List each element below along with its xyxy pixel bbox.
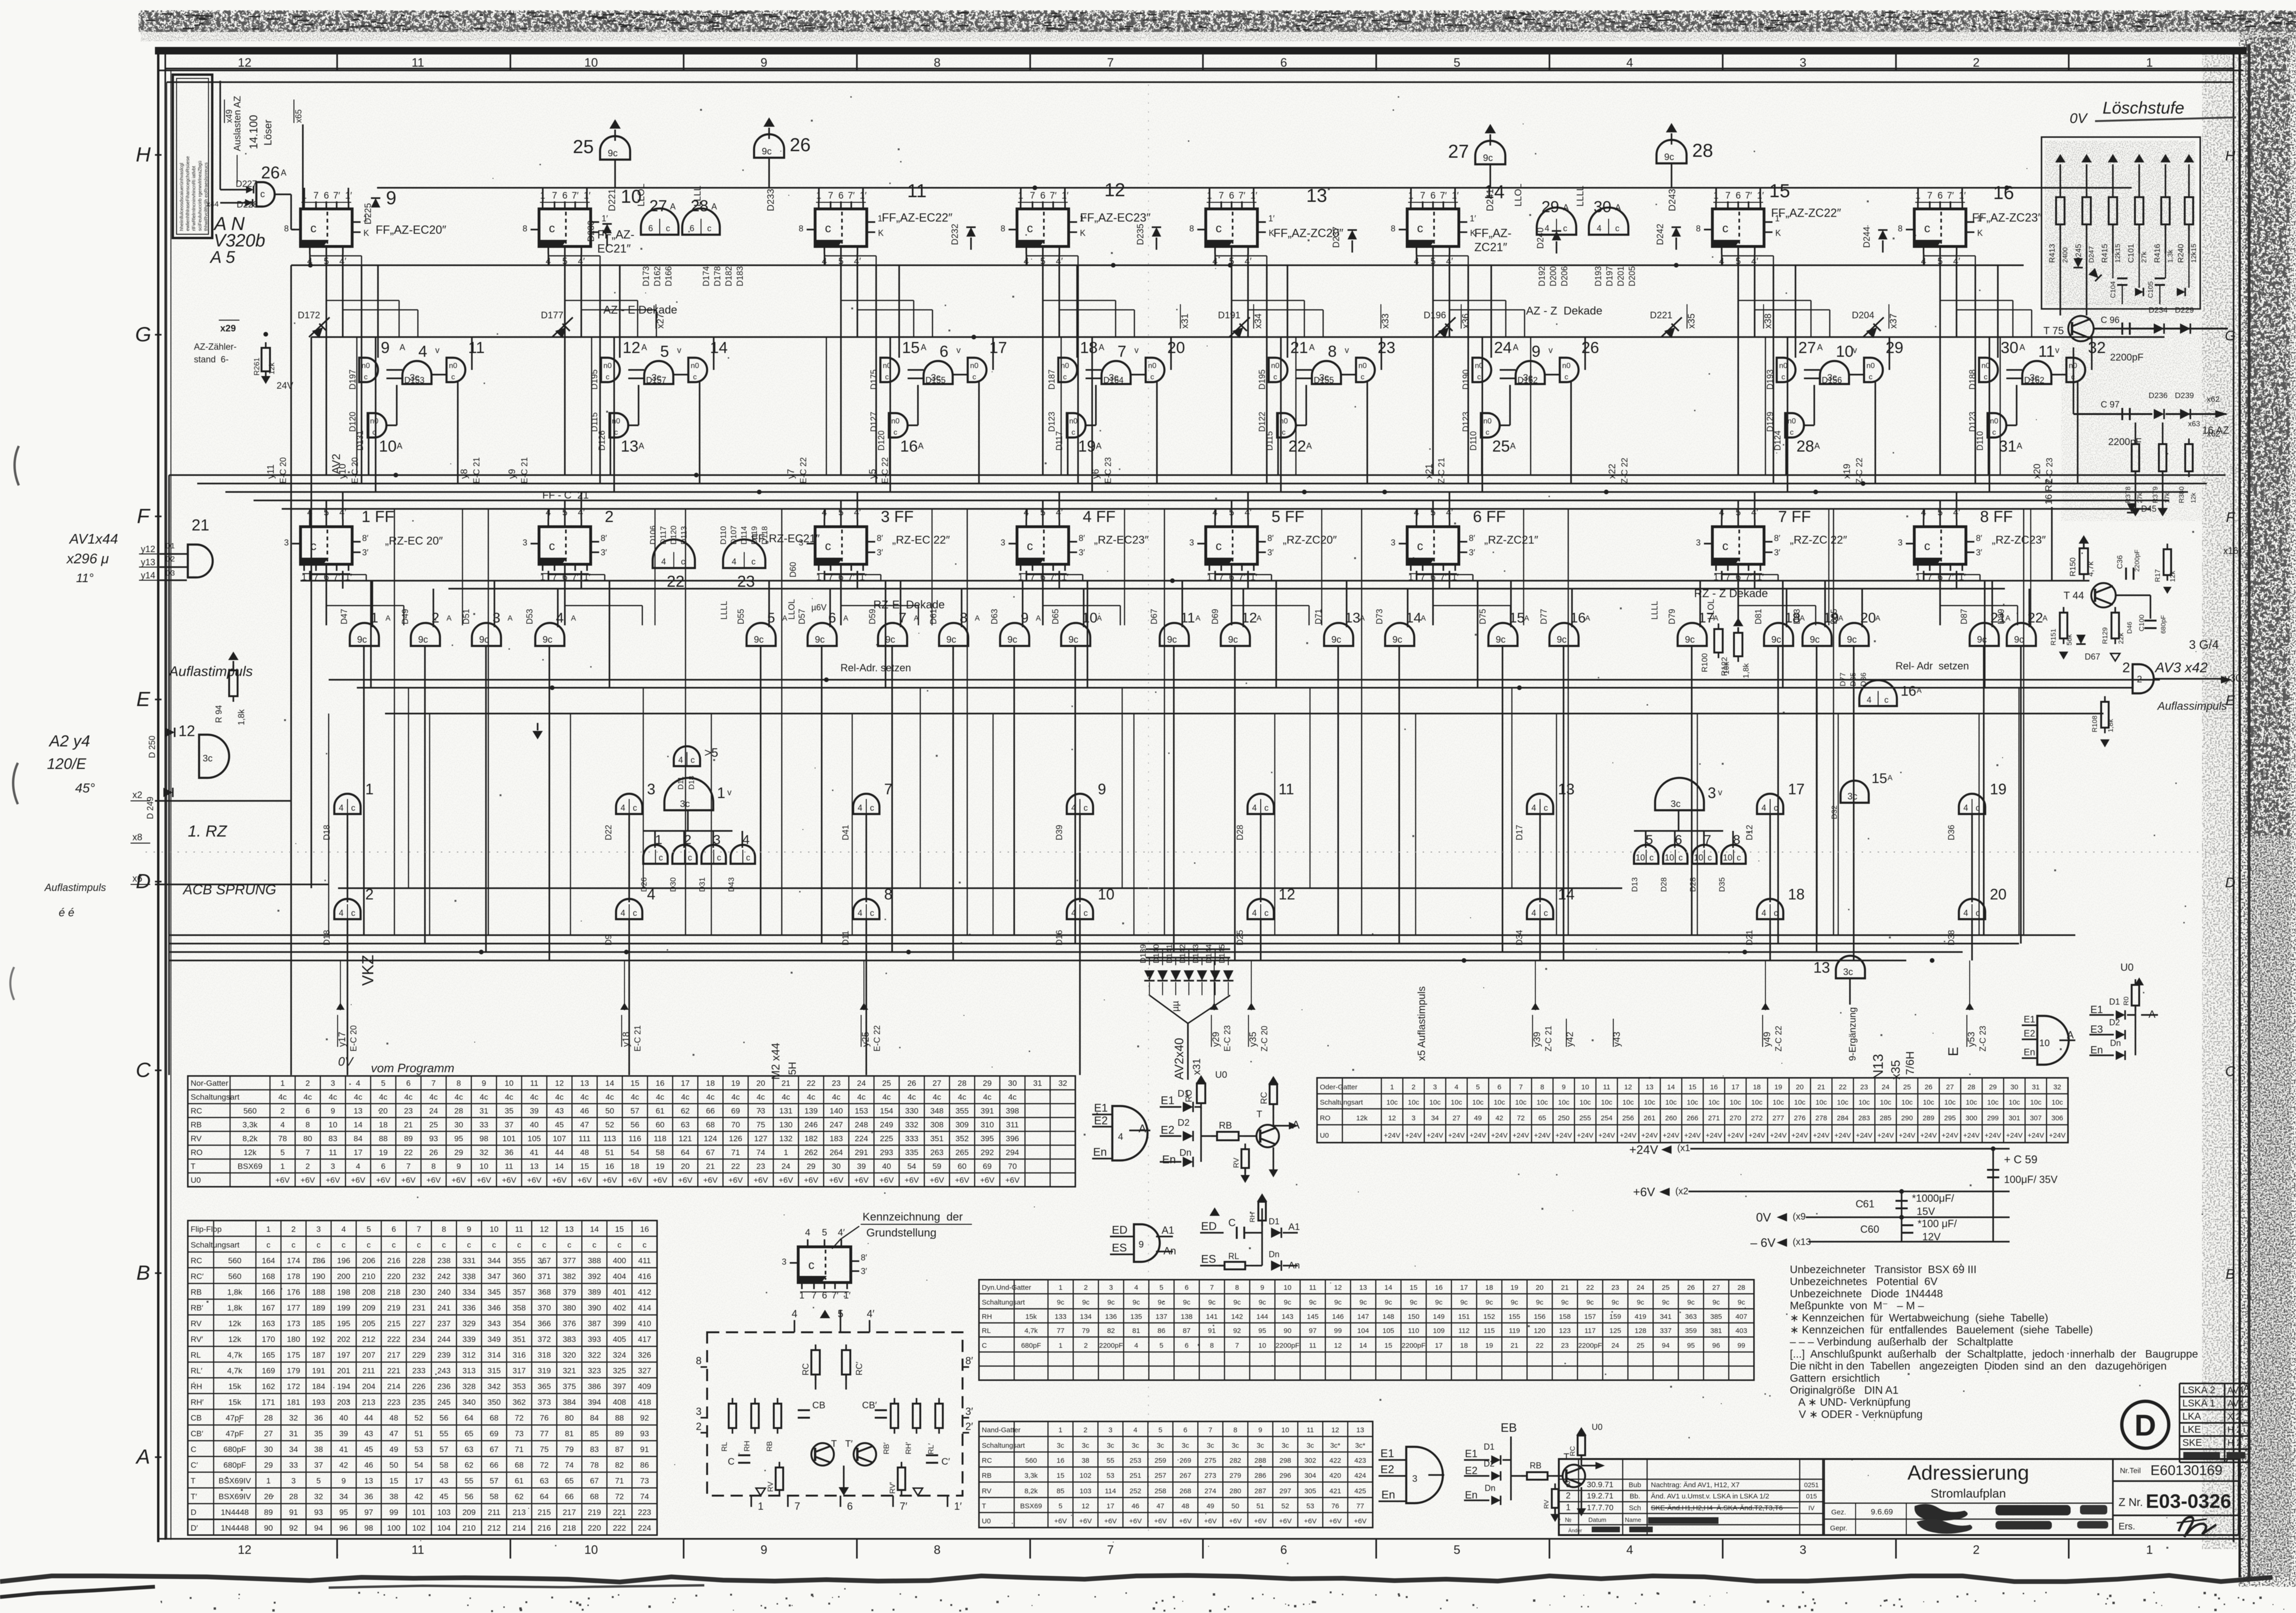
resistor RV (nand example) [1552, 1489, 1558, 1508]
AND gate 12A [601, 358, 620, 382]
svg-text:143: 143 [1282, 1313, 1294, 1321]
svg-text:68: 68 [590, 1492, 599, 1501]
svg-text:53: 53 [1306, 1502, 1314, 1510]
wide OR gate 3v (3c) [1655, 778, 1704, 810]
svg-text:Schaltungsart: Schaltungsart [1320, 1098, 1364, 1106]
svg-text:Dn: Dn [1269, 1250, 1279, 1259]
svg-text:9c: 9c [1460, 1298, 1468, 1306]
svg-text:Ers.: Ers. [2119, 1521, 2135, 1532]
svg-text:9: 9 [1098, 781, 1106, 798]
svg-text:9c: 9c [1486, 1298, 1493, 1306]
svg-text:215: 215 [387, 1319, 401, 1328]
svg-text:3: 3 [1433, 1083, 1437, 1091]
transistor T (nand example) [1563, 1465, 1585, 1487]
svg-text:2: 2 [684, 832, 692, 847]
svg-text:9c: 9c [1685, 635, 1695, 645]
svg-text:37: 37 [314, 1461, 323, 1470]
svg-text:249: 249 [880, 1121, 893, 1129]
svg-text:A: A [1306, 441, 1312, 451]
svg-text:D235: D235 [1136, 224, 1146, 245]
svg-text:A: A [921, 343, 926, 352]
svg-text:8′: 8′ [1774, 533, 1780, 543]
svg-text:D77: D77 [1839, 673, 1847, 686]
dyn AND gate 14A (9c), diode D73 [1385, 623, 1414, 646]
svg-text:D53: D53 [525, 609, 534, 624]
svg-text:176: 176 [287, 1288, 300, 1297]
svg-text:12: 12 [238, 1543, 252, 1557]
svg-text:216: 216 [538, 1524, 551, 1533]
svg-text:A: A [1917, 687, 1922, 695]
svg-text:8: 8 [306, 1121, 310, 1129]
svg-text:11: 11 [412, 55, 424, 69]
svg-text:2200pF: 2200pF [2133, 550, 2141, 572]
svg-text:Auslasten AZ: Auslasten AZ [232, 96, 243, 151]
svg-text:216: 216 [387, 1256, 401, 1265]
svg-text:C: C [191, 1445, 196, 1454]
svg-text:22: 22 [1839, 1083, 1847, 1091]
svg-text:92: 92 [640, 1413, 649, 1422]
svg-text:x62: x62 [2207, 395, 2219, 404]
gate 22 (4c) with diode labels [653, 539, 695, 568]
svg-text:4: 4 [1414, 507, 1419, 518]
svg-text:Nachtrag: Änd AV1, H12, X7: Nachtrag: Änd AV1, H12, X7 [1651, 1481, 1740, 1489]
svg-text:T: T [982, 1502, 986, 1510]
svg-text:322: 322 [588, 1351, 601, 1360]
svg-text:D106: D106 [648, 525, 657, 545]
svg-text:10c: 10c [2051, 1098, 2063, 1106]
svg-text:+6V: +6V [904, 1176, 919, 1185]
svg-text:C′: C′ [191, 1461, 198, 1470]
svg-text:28: 28 [1692, 140, 1713, 161]
svg-text:3: 3 [331, 1162, 335, 1171]
svg-text:42: 42 [339, 1461, 348, 1470]
svg-text:323: 323 [588, 1367, 601, 1375]
dyn AND gate 19A (9c), diode D83 [1803, 623, 1832, 646]
wires of decode cluster 12A [619, 265, 620, 358]
svg-text:3c: 3c [1232, 1442, 1239, 1450]
svg-text:D69: D69 [1210, 609, 1220, 624]
svg-text:D221: D221 [607, 189, 617, 211]
svg-text:145: 145 [1307, 1313, 1318, 1321]
svg-text:38: 38 [389, 1492, 398, 1501]
svg-text:n0: n0 [883, 362, 891, 370]
svg-text:+24V: +24V [2049, 1131, 2065, 1139]
svg-text:28: 28 [958, 1079, 967, 1088]
svg-text:11: 11 [1279, 781, 1294, 798]
dyn AND gate 6A (9c), diode D57 [808, 623, 837, 646]
svg-text:Originalgröße DIN A1: Originalgröße DIN A1 [1790, 1384, 1898, 1396]
svg-text:1: 1 [2146, 55, 2153, 69]
svg-text:230: 230 [412, 1288, 425, 1297]
svg-text:4: 4 [1921, 507, 1926, 518]
svg-text:n0: n0 [1483, 417, 1492, 425]
svg-text:4c: 4c [429, 1093, 438, 1102]
svg-text:96: 96 [339, 1524, 348, 1533]
svg-text:Dn: Dn [2110, 1038, 2121, 1048]
svg-text:30: 30 [2011, 1083, 2019, 1091]
svg-text:6: 6 [1040, 191, 1045, 201]
wires of decode cluster 24A [1490, 265, 1492, 358]
svg-text:D85: D85 [1829, 609, 1839, 624]
svg-text:D73: D73 [1375, 609, 1384, 624]
svg-text:RB′: RB′ [883, 1443, 891, 1454]
svg-text:18: 18 [631, 1162, 639, 1171]
svg-text:015: 015 [1806, 1492, 1817, 1500]
dyn AND gate 4A (9c), diode D53 [535, 623, 564, 646]
svg-text:4 FF: 4 FF [1083, 508, 1116, 526]
svg-text:A: A [1513, 343, 1518, 352]
svg-text:D153: D153 [404, 376, 424, 385]
svg-text:Löschstufe: Löschstufe [2103, 98, 2184, 117]
svg-text:79: 79 [565, 1445, 574, 1454]
svg-text:191: 191 [312, 1367, 325, 1375]
svg-text:Z-C 21: Z-C 21 [1437, 458, 1446, 484]
svg-text:4′: 4′ [838, 1228, 845, 1238]
svg-text:c: c [1563, 223, 1567, 233]
svg-text:RV: RV [1233, 1158, 1240, 1168]
svg-text:14: 14 [555, 1162, 564, 1171]
svg-text:12k: 12k [1356, 1114, 1368, 1122]
svg-text:7: 7 [1107, 55, 1114, 69]
svg-text:>5: >5 [704, 745, 718, 760]
svg-text:D155: D155 [1314, 376, 1334, 385]
svg-text:A: A [508, 614, 513, 622]
svg-text:+24V: +24V [1620, 1131, 1636, 1139]
svg-text:21: 21 [1561, 1284, 1569, 1292]
svg-text:25: 25 [1903, 1083, 1911, 1091]
svg-text:c: c [681, 557, 685, 566]
svg-text:184: 184 [312, 1382, 325, 1391]
svg-text:D145: D145 [1217, 944, 1226, 963]
svg-text:C: C [136, 1059, 151, 1082]
resistor R94 1,8k [228, 652, 239, 660]
svg-text:125: 125 [1610, 1327, 1621, 1335]
svg-text:30.9.71: 30.9.71 [1587, 1480, 1614, 1489]
svg-text:+6V: +6V [578, 1176, 592, 1185]
svg-text:3c: 3c [1843, 967, 1853, 977]
svg-text:12: 12 [623, 339, 640, 357]
svg-text:32: 32 [289, 1413, 298, 1422]
svg-text:10: 10 [1281, 1426, 1289, 1434]
svg-text:185: 185 [312, 1319, 325, 1328]
svg-text:RC: RC [1259, 1092, 1269, 1104]
svg-text:4: 4 [1626, 1543, 1633, 1557]
svg-text:22: 22 [731, 1162, 740, 1171]
svg-text:25: 25 [573, 137, 594, 157]
svg-text:4c: 4c [983, 1093, 992, 1102]
svg-text:v: v [1549, 346, 1553, 355]
svg-text:335: 335 [905, 1148, 918, 1157]
svg-text:30: 30 [2001, 339, 2019, 357]
diode D140 [1157, 970, 1168, 981]
svg-text:FF„AZ-ZC22″: FF„AZ-ZC22″ [1771, 207, 1841, 220]
svg-text:5: 5 [1058, 1502, 1062, 1510]
svg-text:c: c [1722, 221, 1728, 235]
svg-text:D193: D193 [1594, 266, 1603, 286]
svg-text:416: 416 [638, 1272, 651, 1281]
svg-text:258: 258 [1155, 1487, 1166, 1495]
svg-text:12: 12 [1279, 886, 1295, 903]
svg-text:402: 402 [613, 1304, 626, 1313]
svg-text:Adressierung: Adressierung [1907, 1461, 2029, 1484]
svg-text:D141: D141 [1165, 944, 1174, 963]
svg-text:D205: D205 [1627, 266, 1637, 286]
svg-text:D197: D197 [348, 369, 357, 390]
svg-text:n0: n0 [891, 417, 900, 425]
svg-text:RH′: RH′ [905, 1442, 913, 1454]
svg-text:D234: D234 [2149, 306, 2168, 315]
svg-text:D18: D18 [688, 776, 696, 790]
svg-text:179: 179 [287, 1367, 300, 1375]
svg-text:29: 29 [1886, 339, 1903, 357]
svg-text:D206: D206 [1560, 266, 1569, 286]
svg-text:26: 26 [261, 163, 280, 182]
resistor R380 [2185, 444, 2193, 471]
svg-text:+24V: +24V [1448, 1131, 1464, 1139]
svg-text:RC: RC [801, 1363, 810, 1375]
svg-text:n0: n0 [1787, 417, 1796, 425]
table Nor-Gatter [188, 1076, 1075, 1187]
svg-text:x44: x44 [207, 200, 219, 208]
wide OR gate 1v (3c) [664, 778, 713, 810]
svg-text:36: 36 [314, 1413, 323, 1422]
svg-text:30: 30 [455, 1121, 463, 1129]
svg-text:n0: n0 [1358, 362, 1367, 370]
svg-text:212: 212 [487, 1524, 501, 1533]
svg-text:LSKA 2: LSKA 2 [2182, 1385, 2215, 1396]
svg-text:c: c [367, 1241, 371, 1250]
ground (ff internal) [839, 1487, 849, 1496]
svg-text:c: c [1486, 429, 1489, 437]
svg-text:17.7.70: 17.7.70 [1587, 1503, 1614, 1512]
svg-text:9c: 9c [1258, 1298, 1266, 1306]
svg-text:A: A [2067, 1029, 2074, 1041]
svg-text:5: 5 [280, 1148, 285, 1157]
svg-text:31: 31 [1999, 438, 2017, 455]
svg-text:150: 150 [1408, 1313, 1419, 1321]
dyn AND gate 7A (9c), diode D59 [878, 623, 907, 646]
svg-text:RZ - Z Dekade: RZ - Z Dekade [1694, 587, 1768, 600]
svg-text:A: A [1309, 343, 1315, 352]
transistor T75 [2068, 316, 2094, 341]
svg-text:25: 25 [1662, 1284, 1670, 1292]
svg-text:Gattern ersichtlich: Gattern ersichtlich [1790, 1372, 1880, 1384]
svg-text:BSX69: BSX69 [238, 1162, 262, 1171]
svg-text:8: 8 [696, 1355, 701, 1367]
svg-text:418: 418 [638, 1398, 651, 1407]
svg-text:5: 5 [838, 507, 843, 518]
svg-text:c: c [351, 803, 355, 813]
svg-text:E2: E2 [1465, 1465, 1478, 1476]
svg-text:+24V: +24V [1384, 1131, 1400, 1139]
svg-text:A: A [1421, 614, 1426, 622]
svg-text:Schaltungsart: Schaltungsart [982, 1442, 1025, 1450]
gate 3 (10c) [701, 845, 726, 864]
svg-text:C 97: C 97 [2101, 400, 2119, 410]
svg-text:LLOL: LLOL [1706, 599, 1716, 620]
svg-text:11: 11 [329, 1148, 337, 1157]
svg-text:D60: D60 [788, 562, 798, 577]
svg-text:333: 333 [905, 1134, 918, 1143]
svg-text:LSKA 1: LSKA 1 [2182, 1398, 2215, 1409]
svg-text:+ C 59: + C 59 [2004, 1153, 2037, 1166]
svg-text:4c: 4c [958, 1093, 966, 1102]
svg-text:13: 13 [565, 1225, 574, 1234]
svg-text:3: 3 [713, 832, 721, 847]
svg-text:RV: RV [767, 1482, 775, 1492]
svg-text:319: 319 [538, 1367, 551, 1375]
svg-text:D21: D21 [1745, 930, 1754, 945]
svg-text:91: 91 [1208, 1327, 1216, 1335]
svg-text:9c: 9c [1483, 153, 1493, 163]
svg-text:4c: 4c [782, 1093, 790, 1102]
svg-text:218: 218 [387, 1288, 401, 1297]
svg-text:3′: 3′ [1469, 548, 1475, 557]
OR gate 9v (3c) [1516, 361, 1545, 384]
svg-text:13: 13 [1646, 1083, 1654, 1091]
svg-text:1,8k: 1,8k [1741, 663, 1750, 678]
svg-text:13: 13 [1356, 1426, 1364, 1434]
svg-text:Bb.: Bb. [1630, 1492, 1641, 1500]
diode D221 (diagonal) [1661, 317, 1682, 337]
svg-text:D30: D30 [669, 877, 678, 892]
svg-text:64: 64 [540, 1492, 549, 1501]
svg-text:AZ-Zähler-: AZ-Zähler- [194, 342, 237, 352]
svg-text:c: c [364, 373, 368, 381]
svg-text:4′: 4′ [867, 1308, 874, 1320]
svg-text:E: E [1946, 1047, 1961, 1056]
svg-text:90: 90 [1284, 1327, 1292, 1335]
svg-text:10: 10 [585, 1543, 598, 1557]
svg-text:RL: RL [721, 1442, 729, 1452]
svg-text:9c: 9c [946, 635, 956, 645]
svg-text:c: c [1976, 803, 1980, 813]
svg-text:384: 384 [562, 1398, 576, 1407]
svg-text:4: 4 [1964, 803, 1968, 813]
svg-text:9c: 9c [1158, 1298, 1165, 1306]
svg-text:218: 218 [562, 1524, 576, 1533]
svg-text:355: 355 [513, 1256, 526, 1265]
svg-text:53: 53 [1107, 1472, 1115, 1480]
resistor RB [1217, 1132, 1239, 1140]
svg-text:89: 89 [615, 1429, 624, 1438]
svg-text:c: c [351, 908, 355, 918]
svg-text:10c: 10c [1708, 1098, 1720, 1106]
svg-text:10c: 10c [1558, 1098, 1570, 1106]
svg-text:8: 8 [884, 886, 893, 903]
svg-text:RB: RB [1530, 1461, 1541, 1470]
svg-text:45°: 45° [75, 781, 95, 795]
svg-text:9: 9 [1532, 343, 1541, 361]
svg-text:264: 264 [830, 1148, 843, 1157]
svg-text:+6V: +6V [854, 1176, 869, 1185]
svg-text:292: 292 [980, 1148, 994, 1157]
svg-text:12: 12 [1331, 1426, 1339, 1434]
svg-text:+6V: +6V [1329, 1517, 1341, 1525]
svg-text:D: D [191, 1508, 196, 1517]
svg-text:1 FF: 1 FF [362, 508, 394, 526]
svg-text:118: 118 [654, 1134, 666, 1143]
svg-text:151: 151 [1458, 1313, 1470, 1321]
svg-text:c: c [1273, 373, 1277, 381]
svg-text:D182: D182 [724, 266, 733, 286]
diode D143 [1197, 970, 1207, 981]
capacitor C59 100uF/35V [1992, 1149, 1994, 1242]
svg-text:9c: 9c [608, 148, 617, 159]
resistor RC (ff internal) [811, 1350, 820, 1375]
svg-text:2: 2 [1411, 1083, 1415, 1091]
svg-text:45: 45 [364, 1445, 373, 1454]
svg-text:n0: n0 [691, 362, 699, 370]
svg-text:15: 15 [580, 1162, 589, 1171]
svg-text:61: 61 [655, 1106, 664, 1115]
svg-text:294: 294 [1006, 1148, 1019, 1157]
svg-text:D172: D172 [298, 310, 320, 321]
svg-text:7: 7 [884, 781, 893, 798]
svg-text:36: 36 [505, 1148, 514, 1157]
svg-text:+24V: +24V [1534, 1131, 1550, 1139]
svg-text:39: 39 [530, 1106, 539, 1115]
svg-text:+6V: +6V [426, 1176, 441, 1185]
svg-text:R129: R129 [2101, 627, 2109, 644]
svg-text:c: c [1417, 539, 1423, 553]
svg-text:Unbezeichneter Transistor B: Unbezeichneter Transistor BSX 69 III [1790, 1263, 1977, 1275]
svg-text:4: 4 [621, 803, 625, 813]
svg-text:24: 24 [1637, 1284, 1645, 1292]
svg-text:Änder: Änder [1568, 1528, 1582, 1534]
svg-text:199: 199 [337, 1304, 350, 1313]
svg-text:7 FF: 7 FF [1778, 508, 1811, 526]
svg-text:A: A [400, 343, 405, 352]
svg-text:10c: 10c [1816, 1098, 1827, 1106]
svg-text:6: 6 [392, 1225, 396, 1234]
svg-text:D126: D126 [597, 430, 607, 451]
svg-text:D120: D120 [669, 525, 678, 545]
svg-text:D242: D242 [1656, 224, 1665, 245]
svg-text:35: 35 [314, 1429, 323, 1438]
svg-text:RL′: RL′ [927, 1444, 935, 1454]
svg-text:367: 367 [538, 1256, 551, 1265]
svg-text:55: 55 [1107, 1457, 1115, 1465]
table LSKA/LKA/LKE/SKE [2180, 1383, 2249, 1384]
svg-text:Rel- Adr setzen: Rel- Adr setzen [1895, 660, 1969, 672]
resistor RC' (ff internal) [842, 1350, 850, 1375]
svg-text:94: 94 [314, 1524, 323, 1533]
svg-text:5: 5 [316, 1476, 321, 1485]
svg-text:c: c [1708, 853, 1712, 862]
svg-text:112: 112 [1458, 1327, 1470, 1335]
svg-text:332: 332 [905, 1121, 918, 1129]
svg-text:359: 359 [1685, 1327, 1697, 1335]
svg-text:392: 392 [588, 1272, 601, 1281]
svg-text:251: 251 [1130, 1472, 1141, 1480]
svg-text:A: A [1510, 441, 1516, 451]
svg-text:2200pF: 2200pF [1578, 1342, 1602, 1350]
svg-text:9: 9 [381, 339, 390, 357]
svg-text:93: 93 [429, 1134, 438, 1143]
svg-text:c: c [492, 1241, 496, 1250]
capacitor C97 2200pF [2121, 408, 2123, 420]
svg-text:123: 123 [1559, 1327, 1571, 1335]
svg-text:9c: 9c [1435, 1298, 1442, 1306]
svg-text:D155: D155 [925, 376, 946, 385]
wire long verticals mid zone [394, 509, 395, 935]
svg-text:156: 156 [1534, 1313, 1546, 1321]
dyn AND gate 11A (9c), diode D67 [1160, 623, 1189, 646]
svg-text:12k: 12k [228, 1335, 241, 1344]
svg-text:2: 2 [696, 1421, 701, 1432]
svg-text:c: c [751, 557, 755, 566]
